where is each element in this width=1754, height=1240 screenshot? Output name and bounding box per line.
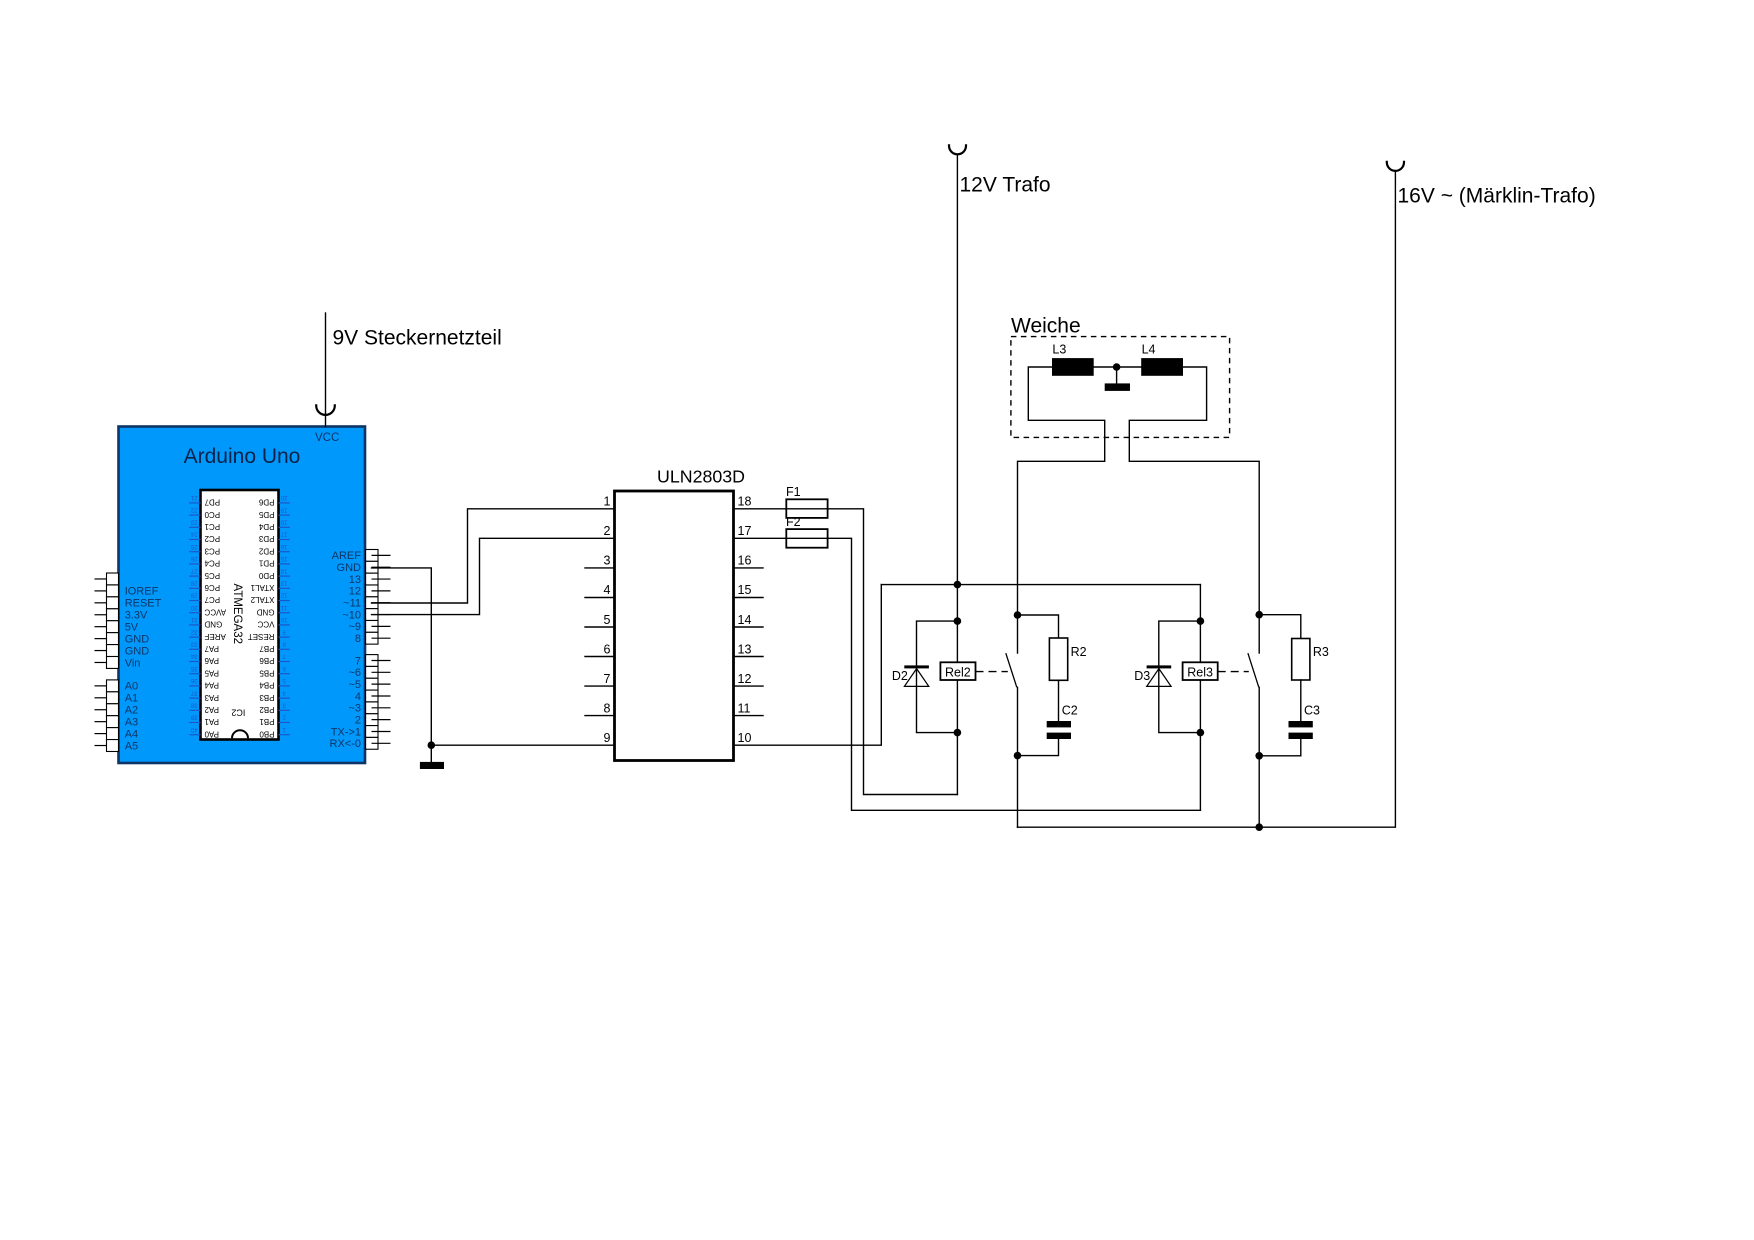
svg-text:C3: C3 (1304, 704, 1320, 718)
node S3 R3 tap (1255, 611, 1263, 619)
svg-text:RX<-0: RX<-0 (330, 738, 362, 750)
capacitor C2 (1047, 703, 1078, 739)
svg-text:PD1: PD1 (258, 559, 274, 568)
svg-text:~5: ~5 (348, 679, 361, 691)
svg-text:24: 24 (190, 531, 197, 537)
wire R3 to C3 (1300, 680, 1302, 721)
svg-text:19: 19 (280, 506, 287, 512)
svg-text:38: 38 (190, 702, 197, 708)
svg-text:16: 16 (280, 543, 287, 549)
12V supply connector (949, 144, 966, 154)
svg-text:37: 37 (190, 689, 197, 695)
svg-text:VCC: VCC (257, 620, 274, 629)
node L3/L4 center (1113, 363, 1121, 371)
common terminal bar (1105, 383, 1130, 391)
svg-text:26: 26 (190, 555, 197, 561)
svg-text:PB6: PB6 (259, 656, 275, 665)
svg-text:PA6: PA6 (204, 656, 219, 665)
svg-text:36: 36 (190, 677, 197, 683)
svg-text:40: 40 (190, 726, 197, 732)
svg-text:PB0: PB0 (259, 729, 275, 738)
wire C2 bottom (1018, 739, 1059, 756)
node S3 bottom tap (1255, 752, 1263, 760)
node S3 common (1255, 823, 1263, 831)
diode D2 (892, 665, 929, 686)
svg-text:7: 7 (355, 655, 361, 667)
node Rel2 bottom (954, 729, 962, 737)
svg-text:A2: A2 (125, 705, 138, 717)
svg-text:8: 8 (355, 633, 361, 645)
svg-text:PC6: PC6 (204, 583, 220, 592)
svg-text:A0: A0 (125, 681, 138, 693)
wire ~10 to ULN pin2 (372, 538, 615, 614)
wire 16V line (1018, 171, 1396, 827)
svg-text:12V Trafo: 12V Trafo (960, 174, 1051, 197)
svg-text:PB7: PB7 (259, 644, 275, 653)
relay coil Rel3 (1183, 662, 1218, 680)
wire GND net (372, 568, 432, 762)
svg-text:29: 29 (190, 592, 197, 598)
svg-text:IOREF: IOREF (125, 586, 159, 598)
svg-text:PB1: PB1 (259, 717, 275, 726)
svg-text:Rel2: Rel2 (945, 665, 971, 679)
diode D3 (1134, 665, 1171, 686)
svg-text:PB3: PB3 (259, 693, 275, 702)
svg-text:9: 9 (604, 731, 611, 745)
svg-text:A3: A3 (125, 717, 138, 729)
wire L3-L4 (1094, 366, 1142, 368)
svg-text:~3: ~3 (348, 703, 361, 715)
svg-text:21: 21 (190, 494, 197, 500)
svg-text:PD2: PD2 (258, 546, 274, 555)
svg-text:28: 28 (190, 580, 197, 586)
svg-text:PD7: PD7 (204, 498, 220, 507)
svg-text:22: 22 (190, 506, 197, 512)
svg-text:9V Steckernetzteil: 9V Steckernetzteil (333, 327, 502, 350)
svg-text:GND: GND (337, 562, 362, 574)
svg-text:PA1: PA1 (204, 717, 219, 726)
relay coil Rel2 (940, 662, 975, 680)
svg-text:PA4: PA4 (204, 681, 219, 690)
Arduino right header JP2 (366, 550, 391, 750)
svg-text:4: 4 (355, 691, 361, 703)
svg-text:PA0: PA0 (204, 729, 219, 738)
svg-text:31: 31 (190, 616, 197, 622)
svg-text:IC2: IC2 (231, 708, 245, 718)
node GND junction (428, 741, 436, 749)
coil L3 (1052, 342, 1094, 376)
svg-text:VCC: VCC (315, 432, 339, 444)
svg-text:AREF: AREF (332, 550, 362, 562)
svg-text:PB2: PB2 (259, 705, 275, 714)
svg-text:32: 32 (190, 628, 197, 634)
svg-text:TX->1: TX->1 (331, 726, 361, 738)
svg-text:XTAL1: XTAL1 (250, 583, 274, 592)
node Rel2 top (954, 617, 962, 625)
svg-text:~10: ~10 (342, 609, 361, 621)
svg-text:PA5: PA5 (204, 668, 219, 677)
svg-text:1: 1 (604, 495, 611, 509)
wire link pin10/12V/Rel3 (881, 584, 1200, 586)
svg-text:PD4: PD4 (258, 522, 274, 531)
svg-text:ATMEGA32: ATMEGA32 (231, 584, 243, 645)
svg-text:ULN2803D: ULN2803D (657, 467, 745, 487)
svg-text:16: 16 (738, 554, 752, 568)
resistor R2 (1049, 638, 1086, 680)
svg-text:RESET: RESET (125, 598, 162, 610)
svg-text:GND: GND (125, 633, 150, 645)
wire R3 branch top (1259, 615, 1301, 639)
wire center tap (1116, 367, 1118, 383)
16V supply connector (1387, 161, 1404, 171)
Arduino left header JP1 (95, 573, 119, 751)
wire ULN pin10 (734, 585, 882, 746)
svg-text:33: 33 (190, 641, 197, 647)
wire D3 branch (1159, 621, 1201, 733)
svg-text:L3: L3 (1052, 342, 1066, 356)
wire L3 left loop (1018, 367, 1105, 653)
svg-text:Weiche: Weiche (1011, 315, 1081, 338)
svg-text:2: 2 (604, 524, 611, 538)
9V supply connector (316, 313, 502, 427)
svg-text:14: 14 (738, 613, 752, 627)
svg-text:23: 23 (190, 519, 197, 525)
svg-text:GND: GND (257, 607, 275, 616)
svg-text:11: 11 (280, 604, 287, 610)
dashed actuator Rel2 (976, 671, 1008, 673)
svg-text:F2: F2 (786, 515, 801, 529)
svg-text:3: 3 (604, 554, 611, 568)
svg-text:PC5: PC5 (204, 571, 220, 580)
svg-text:~6: ~6 (348, 667, 361, 679)
svg-text:13: 13 (280, 580, 287, 586)
svg-text:10: 10 (280, 616, 287, 622)
svg-text:13: 13 (349, 574, 361, 586)
driver IC ULN2803D (585, 467, 763, 761)
svg-text:PA2: PA2 (204, 705, 219, 714)
wire ULN pin18 through F1 (734, 509, 958, 795)
svg-text:D2: D2 (892, 669, 908, 683)
wire L4 right loop (1129, 367, 1259, 653)
wire R2 branch top (1018, 615, 1059, 638)
svg-text:GND: GND (125, 645, 150, 657)
wire R2 to C2 (1058, 680, 1060, 721)
svg-text:A1: A1 (125, 693, 138, 705)
svg-text:16V ~ (Märklin-Trafo): 16V ~ (Märklin-Trafo) (1398, 185, 1596, 208)
dashed actuator Rel3 (1218, 671, 1249, 673)
svg-text:PA7: PA7 (204, 644, 219, 653)
svg-text:Vin: Vin (125, 657, 141, 669)
svg-text:5V: 5V (125, 622, 139, 634)
Weiche dashed box (1011, 337, 1230, 438)
svg-text:PB5: PB5 (259, 668, 275, 677)
svg-text:PB4: PB4 (259, 681, 275, 690)
svg-text:GND: GND (204, 620, 222, 629)
wire C3 bottom (1259, 739, 1301, 756)
svg-text:17: 17 (738, 524, 752, 538)
wire Rel3 rail (1199, 585, 1201, 811)
svg-text:11: 11 (738, 701, 751, 715)
svg-text:PD0: PD0 (258, 571, 274, 580)
svg-text:18: 18 (738, 495, 752, 509)
svg-text:3.3V: 3.3V (125, 610, 148, 622)
svg-text:A4: A4 (125, 728, 138, 740)
svg-text:39: 39 (190, 714, 197, 720)
svg-text:12: 12 (349, 586, 361, 598)
resistor R3 (1292, 639, 1329, 681)
svg-text:RESET: RESET (248, 632, 275, 641)
node 12V junction (954, 581, 962, 589)
wire Rel2 rail (956, 585, 958, 795)
svg-text:14: 14 (280, 567, 287, 573)
Arduino Uno module U1 (119, 427, 366, 764)
svg-text:13: 13 (738, 642, 752, 656)
svg-text:L4: L4 (1142, 342, 1156, 356)
Arduino pin labels (125, 550, 362, 752)
svg-text:PA3: PA3 (204, 693, 219, 702)
wire S3 lower (1258, 687, 1260, 827)
ground symbol (420, 762, 444, 769)
svg-text:10: 10 (738, 731, 752, 745)
wire D2 branch (917, 621, 958, 733)
node Rel3 bottom (1197, 729, 1205, 737)
svg-text:PC0: PC0 (204, 510, 220, 519)
wire ~11 to ULN pin1 (372, 509, 615, 603)
capacitor C3 (1289, 704, 1321, 739)
svg-text:8: 8 (604, 701, 611, 715)
wire S2 lower (1017, 687, 1019, 827)
svg-text:Arduino Uno: Arduino Uno (184, 445, 301, 468)
svg-text:12: 12 (280, 592, 287, 598)
svg-text:27: 27 (190, 567, 197, 573)
svg-text:6: 6 (604, 642, 611, 656)
svg-text:2: 2 (355, 714, 361, 726)
svg-text:7: 7 (604, 672, 611, 686)
svg-text:PC4: PC4 (204, 559, 220, 568)
coil L4 (1141, 342, 1183, 376)
svg-text:PC7: PC7 (204, 595, 220, 604)
svg-text:A5: A5 (125, 740, 138, 752)
svg-text:20: 20 (280, 494, 287, 500)
svg-text:PC2: PC2 (204, 534, 220, 543)
svg-text:12: 12 (738, 672, 752, 686)
switch S3 blade (1248, 653, 1259, 687)
wire 12V line (956, 154, 958, 584)
svg-text:15: 15 (280, 555, 287, 561)
node S2 R2 tap (1014, 611, 1022, 619)
ATMEGA32 chip IC2 (189, 490, 290, 740)
svg-text:17: 17 (280, 531, 287, 537)
svg-text:F1: F1 (786, 485, 801, 499)
svg-text:PD6: PD6 (258, 498, 274, 507)
svg-text:5: 5 (604, 613, 611, 627)
svg-text:30: 30 (190, 604, 197, 610)
switch S2 blade (1006, 653, 1017, 687)
svg-text:Rel3: Rel3 (1187, 665, 1213, 679)
svg-text:~9: ~9 (348, 621, 361, 633)
svg-text:D3: D3 (1134, 669, 1150, 683)
svg-text:~11: ~11 (343, 598, 361, 610)
svg-text:AREF: AREF (204, 632, 225, 641)
svg-text:15: 15 (738, 583, 752, 597)
wire ULN pin17 through F2 (734, 538, 1201, 810)
svg-text:4: 4 (604, 583, 611, 597)
wire 9V to VCC (325, 313, 327, 427)
svg-text:PD5: PD5 (258, 510, 274, 519)
svg-text:PC3: PC3 (204, 546, 220, 555)
svg-text:25: 25 (190, 543, 197, 549)
node Rel3 top (1197, 617, 1205, 625)
svg-text:C2: C2 (1062, 703, 1078, 717)
fuse F2 (786, 529, 827, 548)
svg-text:34: 34 (190, 653, 197, 659)
svg-text:PC1: PC1 (204, 522, 220, 531)
svg-text:18: 18 (280, 519, 287, 525)
svg-text:R3: R3 (1313, 645, 1329, 659)
svg-text:R2: R2 (1071, 645, 1087, 659)
node S2 bottom tap (1014, 752, 1022, 760)
svg-text:PD3: PD3 (258, 534, 274, 543)
fuse F1 (786, 499, 827, 518)
svg-text:AVCC: AVCC (204, 607, 226, 616)
wire GND to ULN pin9 (431, 744, 614, 746)
svg-text:XTAL2: XTAL2 (250, 595, 274, 604)
svg-text:35: 35 (190, 665, 197, 671)
